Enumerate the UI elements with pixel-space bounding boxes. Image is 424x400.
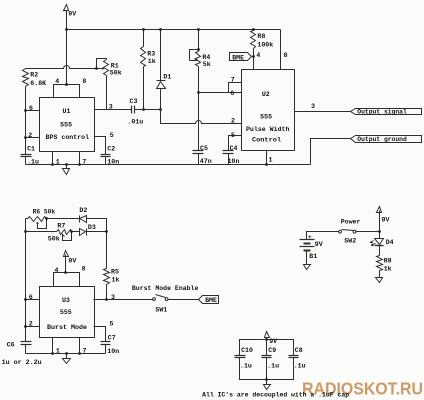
wire U1 pin 2 stub — [26, 137, 40, 139]
potentiometer R6 50k — [28, 217, 47, 222]
wire ground rail (top section) — [26, 164, 311, 166]
svg-text:5: 5 — [231, 132, 235, 139]
node 9V supply arrow (U3) — [64, 251, 69, 257]
diode D2 — [79, 216, 81, 223]
potentiometer R4 5k — [196, 52, 201, 67]
capacitor C8 .1u — [289, 355, 299, 357]
svg-text:R7: R7 — [57, 222, 65, 229]
svg-text:C3: C3 — [130, 98, 138, 105]
capacitor C6 1u — [21, 341, 32, 343]
svg-text:Control: Control — [252, 136, 281, 143]
svg-text:1: 1 — [269, 157, 273, 164]
potentiometer R1 50k — [104, 60, 109, 76]
svg-text:50k: 50k — [48, 235, 60, 242]
wire pin3 node to SW1 — [107, 299, 153, 301]
wire SW1 to BME flag — [169, 299, 199, 301]
switch SW1 — [153, 298, 156, 301]
svg-text:Burst Mode Enable: Burst Mode Enable — [132, 285, 199, 292]
wire U3 pins 4-8 tie bracket — [54, 273, 80, 287]
svg-text:.1u: .1u — [240, 362, 252, 369]
resistor R5 1k — [104, 269, 110, 285]
svg-text:3: 3 — [111, 294, 115, 301]
svg-text:R6 50k: R6 50k — [33, 208, 56, 215]
junction ground rail / U2 pin 1 — [265, 163, 268, 166]
wire R1 bottom to pin3 net — [106, 76, 108, 110]
wire SW2 to 9V node — [356, 231, 380, 233]
svg-text:1k: 1k — [148, 58, 156, 65]
wire U1 pin 1 — [52, 152, 54, 165]
wire R6 to D2 cathode — [47, 218, 80, 220]
svg-text:+: + — [308, 234, 312, 241]
svg-text:10n: 10n — [228, 158, 240, 165]
junction 9V rail / R8 — [252, 28, 255, 31]
junction left column / pin 2 — [24, 136, 27, 139]
svg-text:U1: U1 — [63, 108, 71, 115]
junction decoupling rail / 9V — [265, 338, 268, 341]
svg-text:555: 555 — [60, 122, 72, 129]
svg-text:4: 4 — [256, 52, 260, 59]
svg-text:U3: U3 — [62, 297, 70, 304]
IC U2 555 Pulse Width Control — [242, 70, 295, 151]
svg-text:10n: 10n — [107, 348, 119, 355]
wire diode node to R5 — [106, 232, 108, 269]
wire R4 column down to C5 (behind pin2 hop) — [198, 93, 200, 151]
wire U1 pins 4-8 tie bracket — [54, 85, 80, 98]
wire decoupling top rail — [240, 340, 294, 356]
wire C9 bottom stem — [266, 358, 268, 380]
wire left column R2 to C1 — [25, 87, 27, 155]
svg-text:R2: R2 — [30, 72, 38, 79]
capacitor C9 .1u — [262, 355, 272, 357]
svg-text:Output signal: Output signal — [357, 109, 407, 116]
junction 9V rail / D1 — [159, 28, 162, 31]
wire R8 bottom to U2 pin 4 — [253, 49, 255, 70]
junction ground rail / ground symbol — [65, 163, 68, 166]
ground (R9) — [379, 277, 381, 278]
svg-text:D3: D3 — [88, 224, 96, 231]
svg-text:Pulse Width: Pulse Width — [246, 126, 290, 133]
junction left column / pin 6 — [24, 109, 27, 112]
diode D3 — [80, 229, 86, 236]
svg-text:B1: B1 — [309, 253, 317, 260]
svg-text:47n: 47n — [200, 158, 212, 165]
svg-text:BPS control: BPS control — [46, 134, 90, 141]
svg-text:2: 2 — [231, 118, 235, 125]
junction 9V / U3 pin bracket — [64, 271, 67, 274]
svg-text:R3: R3 — [147, 50, 155, 57]
junction U3 rail / pin7 — [78, 352, 81, 355]
flag Output ground — [351, 136, 422, 143]
wire U3 pin 5 to C7 — [94, 327, 106, 342]
wire ground rail (U3 section) — [26, 353, 106, 355]
ground (top section) — [66, 165, 68, 169]
svg-text:R5: R5 — [111, 268, 119, 275]
junction decoupling bottom rail / ground — [265, 378, 268, 381]
svg-text:.1u: .1u — [294, 362, 306, 369]
switch SW2 — [339, 230, 342, 233]
svg-text:D1: D1 — [163, 74, 171, 81]
node 9V supply arrow (top) — [64, 5, 69, 11]
wire battery to SW2 — [307, 232, 339, 240]
ground (decoupling) — [266, 380, 268, 385]
svg-text:4: 4 — [55, 267, 59, 274]
svg-text:2: 2 — [28, 132, 32, 139]
junction wire / R1 wiper loop — [95, 67, 98, 70]
diode D1 — [160, 30, 162, 81]
potentiometer R7 50k — [57, 230, 72, 235]
svg-text:R9: R9 — [384, 258, 392, 265]
svg-text:5k: 5k — [203, 61, 211, 68]
svg-text:9V: 9V — [68, 11, 76, 18]
svg-text:.1u: .1u — [267, 362, 279, 369]
svg-text:1u or 2.2u: 1u or 2.2u — [2, 359, 42, 366]
svg-text:2: 2 — [29, 321, 33, 328]
junction U3 pin3 / R5 — [105, 298, 108, 301]
svg-text:8: 8 — [82, 265, 86, 272]
svg-text:3: 3 — [311, 103, 315, 110]
junction R4 top / wiper — [197, 48, 200, 51]
svg-text:R4: R4 — [202, 54, 210, 61]
svg-text:5: 5 — [110, 132, 114, 139]
wire U2 pin 5 to C4 — [229, 136, 242, 151]
wire R9 to ground — [379, 271, 381, 277]
ground (battery) — [306, 264, 308, 266]
resistor R9 1k — [377, 256, 383, 271]
svg-text:.01u: .01u — [127, 119, 143, 126]
junction ground rail / pin 1 — [51, 163, 54, 166]
resistor R3 1k — [141, 47, 146, 67]
svg-text:Output ground: Output ground — [357, 136, 407, 143]
svg-text:6: 6 — [29, 105, 33, 112]
svg-text:C10: C10 — [241, 347, 253, 354]
ground (U3 section) — [66, 354, 68, 359]
svg-text:4: 4 — [55, 78, 59, 85]
svg-text:6: 6 — [230, 90, 234, 97]
svg-text:8: 8 — [82, 78, 86, 85]
svg-text:BME: BME — [205, 297, 217, 304]
svg-text:U2: U2 — [262, 91, 270, 98]
wire battery negative to ground — [306, 251, 308, 265]
svg-text:50k: 50k — [110, 69, 122, 76]
svg-text:6: 6 — [29, 294, 33, 301]
junction 9V node / LED — [378, 230, 381, 233]
svg-text:C9: C9 — [268, 347, 276, 354]
wire U3 pin 6 stub — [26, 299, 40, 301]
wire U3 pin 3 to switch — [94, 299, 107, 301]
svg-text:8: 8 — [284, 52, 288, 59]
wire R7 to D3 anode — [72, 231, 80, 233]
svg-text:C8: C8 — [295, 347, 303, 354]
junction U2 pin4 / BME flag — [252, 55, 255, 58]
wire 9V feed down to U1 pins 4-8 — [66, 30, 68, 85]
junction 9V feed / pin bracket — [65, 83, 68, 86]
junction 9V rail / R4 — [197, 28, 200, 31]
svg-text:SW1: SW1 — [155, 307, 167, 314]
wire U1 pin 3 to C3 — [95, 109, 132, 111]
svg-text:Burst Mode: Burst Mode — [47, 324, 87, 331]
svg-text:9V: 9V — [382, 217, 390, 224]
svg-text:5: 5 — [110, 320, 114, 327]
svg-text:3: 3 — [109, 104, 113, 111]
svg-text:555: 555 — [260, 113, 272, 120]
svg-text:100k: 100k — [257, 41, 273, 48]
wire D1 node down and right to U2 pin 2 (hops R4 column) — [161, 110, 242, 124]
resistor R2 6.8K — [23, 69, 29, 87]
resistor R8 100k — [251, 31, 256, 49]
wire U2 pin 6 from R4 — [199, 92, 242, 94]
wire left column R7 row to C6 — [25, 232, 27, 342]
svg-text:555: 555 — [60, 309, 72, 316]
wire R5 to U3 pin 3 node — [106, 285, 108, 300]
wire U1 pin 5 to C2 — [95, 137, 106, 155]
svg-text:D4: D4 — [386, 239, 394, 246]
wire D4 to R9 — [379, 246, 381, 256]
svg-text:9V: 9V — [68, 258, 76, 265]
node 9V supply arrow (decoupling) — [265, 332, 270, 338]
svg-text:C2: C2 — [107, 145, 115, 152]
capacitor C1 .1u — [21, 154, 32, 156]
wire D2 to D3 junction — [87, 219, 107, 232]
capacitor C3 .01u — [131, 106, 133, 114]
node 9V supply arrow (power) — [377, 207, 382, 213]
svg-text:C4: C4 — [230, 145, 238, 152]
wire U2 pin 1 — [266, 151, 268, 165]
wire decoupling bottom rail — [240, 358, 294, 380]
wire U3 pin 1 — [52, 338, 54, 354]
wire U1 pin 6 stub — [26, 110, 40, 112]
wire U1 pin 7 — [79, 152, 81, 165]
junction left column / U3 pin 6 — [24, 298, 27, 301]
svg-text:C7: C7 — [108, 334, 116, 341]
wire R2 top to R1 wiper (hops 9V feed) — [26, 66, 97, 69]
junction U3 rail / pin1 — [51, 352, 54, 355]
capacitor C7 10n — [101, 341, 111, 343]
wire left column R6 to R7 row — [25, 219, 27, 232]
junction 9V rail / feed — [65, 28, 68, 31]
capacitor C10 .1u — [235, 355, 246, 357]
junction pin3 net / R3 — [142, 108, 145, 111]
wire output ground riser — [311, 139, 351, 165]
svg-text:SW2: SW2 — [344, 238, 356, 245]
wire U3 pin 2 stub — [26, 326, 40, 328]
flag BME (to U2 pin 4) — [230, 53, 252, 61]
junction ground rail / pin 7 — [78, 163, 81, 166]
junction left column / R7 row — [24, 230, 27, 233]
capacitor C5 47n — [193, 150, 204, 152]
junction D2/D3 node — [105, 230, 108, 233]
svg-text:6.8K: 6.8K — [30, 80, 46, 87]
IC U3 555 Burst Mode — [40, 287, 95, 338]
wire C3 to D1 anode node — [135, 109, 161, 111]
wire C9 top stem — [266, 340, 268, 356]
flag BME (from SW1) — [199, 296, 219, 304]
wire U2 pins 7-6 tie bracket — [229, 83, 242, 93]
wire 9V rail (top) — [67, 29, 281, 31]
svg-text:Power: Power — [341, 219, 361, 226]
flag Output signal — [351, 109, 422, 115]
wire U2 pin 8 from 9V rail — [280, 30, 282, 70]
svg-text:C1: C1 — [27, 145, 35, 152]
junction R7 right / wiper — [70, 230, 73, 233]
svg-text:C5: C5 — [200, 145, 208, 152]
wire U3 pin 7 — [79, 338, 81, 354]
junction pin3 net / D1 anode — [159, 108, 162, 111]
junction 9V rail / R3 — [142, 28, 145, 31]
svg-text:7: 7 — [231, 77, 235, 84]
junction U3 rail / ground — [65, 352, 68, 355]
junction R4 / U2 pin6 wire — [197, 91, 200, 94]
battery B1 9V — [300, 239, 315, 241]
svg-text:9V: 9V — [315, 241, 323, 248]
wire R7 row from column — [26, 231, 57, 233]
capacitor C2 10n — [101, 154, 111, 156]
svg-text:BME: BME — [232, 55, 244, 62]
svg-text:D2: D2 — [79, 207, 87, 214]
wire R4 bottom to pin6 junction — [198, 67, 200, 93]
svg-text:All IC's are decoupled with a: All IC's are decoupled with a .1uF cap — [202, 391, 349, 398]
svg-text:1k: 1k — [112, 277, 120, 284]
op... IC U1 555 BPS control — [40, 98, 95, 152]
svg-text:1k: 1k — [384, 265, 392, 272]
junction left column / U3 pin 2 — [24, 325, 27, 328]
capacitor C4 10n — [223, 150, 234, 152]
svg-text:C6: C6 — [7, 341, 15, 348]
wire U2 pin 3 to output flag — [295, 111, 351, 113]
wire D3 cathode to junction — [87, 231, 107, 233]
junction R6 right / wiper — [45, 217, 48, 220]
wire R3 bottom to pin3 net — [143, 67, 145, 110]
LED D4 — [379, 232, 381, 239]
svg-text:R8: R8 — [257, 33, 265, 40]
